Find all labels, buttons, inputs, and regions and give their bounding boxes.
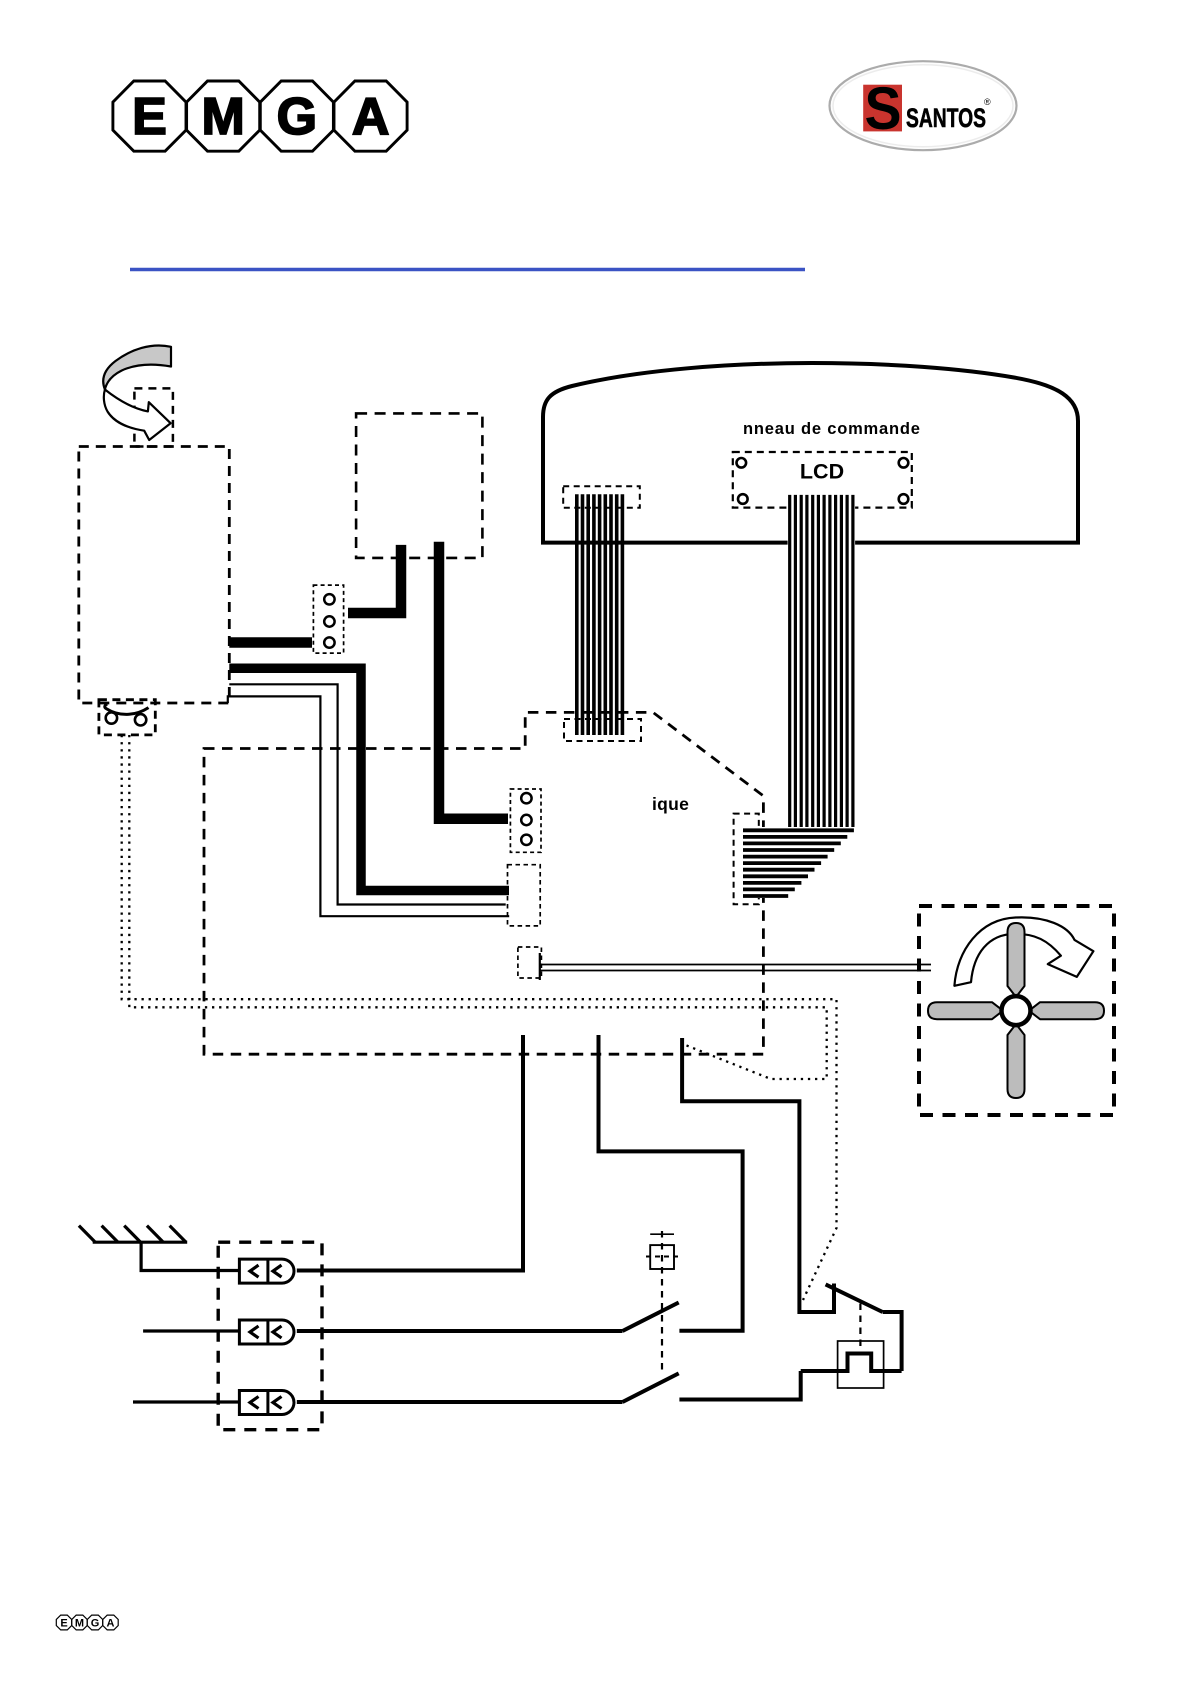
svg-text:LCD: LCD bbox=[800, 460, 844, 484]
svg-text:G: G bbox=[91, 1618, 100, 1630]
svg-text:G: G bbox=[277, 88, 317, 146]
svg-text:S: S bbox=[865, 75, 902, 142]
svg-text:A: A bbox=[107, 1618, 115, 1630]
svg-text:M: M bbox=[75, 1618, 84, 1630]
svg-text:A: A bbox=[352, 88, 390, 146]
svg-text:®: ® bbox=[984, 97, 991, 107]
svg-text:nneau de commande: nneau de commande bbox=[743, 420, 921, 438]
svg-text:ique: ique bbox=[652, 794, 689, 814]
svg-text:E: E bbox=[60, 1618, 67, 1630]
svg-text:M: M bbox=[202, 88, 245, 146]
svg-text:E: E bbox=[132, 88, 167, 146]
svg-text:SANTOS: SANTOS bbox=[906, 103, 986, 133]
